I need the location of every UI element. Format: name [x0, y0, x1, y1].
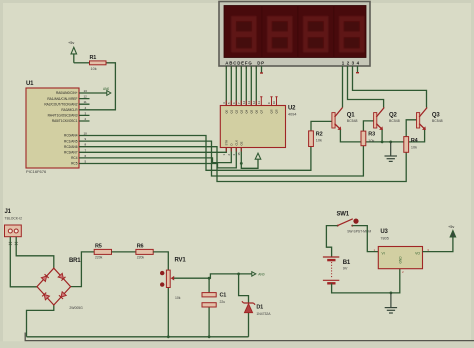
svg-text:BC548: BC548 [347, 119, 358, 123]
wire RC0 to R2 bottom [90, 136, 311, 171]
svg-text:220k: 220k [95, 256, 103, 260]
svg-text:RA5/T1CKI/OSC1: RA5/T1CKI/OSC1 [52, 119, 78, 123]
U2 top pin stubs red tips [226, 97, 277, 106]
svg-text:Q3: Q3 [432, 113, 440, 119]
svg-text:B1: B1 [343, 260, 351, 266]
svg-text:RC4: RC4 [71, 156, 78, 160]
svg-text:Q4: Q4 [244, 109, 248, 113]
svg-text:Q5: Q5 [249, 109, 253, 113]
wire R5 to R6 [112, 251, 136, 253]
U2 top pin numbers [222, 100, 276, 104]
terminal AN0 bottom [252, 272, 265, 277]
display digit 4 [339, 16, 364, 52]
svg-text:VO: VO [415, 252, 420, 256]
svg-text:4094: 4094 [288, 113, 296, 117]
svg-text:D1: D1 [256, 305, 263, 311]
svg-text:11: 11 [257, 101, 261, 104]
wire display pin1 to Q1 collector [342, 66, 344, 108]
svg-text:10k: 10k [411, 145, 417, 149]
svg-text:AN0: AN0 [258, 273, 264, 277]
svg-text:QS: QS [275, 109, 279, 113]
wire segment F display to U2 Q5 [250, 66, 252, 106]
svg-text:QS: QS [270, 109, 274, 113]
svg-text:10k: 10k [91, 67, 97, 71]
diode bottom-left [42, 293, 49, 300]
svg-text:RC3/AN7: RC3/AN7 [64, 151, 78, 155]
svg-text:Q7: Q7 [259, 109, 263, 113]
wire bridge bottom to ground rail [27, 305, 54, 337]
svg-text:10k: 10k [368, 139, 374, 143]
U2 bottom pin numbers [222, 152, 241, 156]
svg-text:OE: OE [239, 141, 243, 145]
diode top-right [58, 273, 65, 280]
svg-text:D: D [229, 143, 233, 145]
svg-text:10: 10 [84, 132, 88, 136]
U2 bottom pin names STR D CLK OE [224, 140, 243, 146]
svg-text:J1: J1 [5, 209, 12, 215]
svg-text:11: 11 [84, 100, 87, 104]
wire R6 to RV1 top [153, 252, 168, 270]
power +5v top left [68, 41, 77, 63]
svg-text:22u: 22u [220, 300, 226, 304]
display pin4 stub [357, 66, 359, 73]
svg-text:AN0: AN0 [103, 87, 109, 91]
svg-text:13: 13 [247, 100, 251, 104]
junction C1 top [208, 277, 211, 280]
junction U2 OE [240, 162, 243, 165]
svg-text:Q2: Q2 [389, 113, 397, 119]
svg-text:U3: U3 [380, 229, 388, 235]
wire RV1 bottom to rail [167, 288, 169, 337]
wire C1 top [208, 278, 210, 292]
svg-text:GND: GND [398, 256, 402, 264]
wire +5v to R1 [74, 62, 90, 64]
wire U2 OE to power terminal [241, 148, 258, 169]
svg-text:RC2/AN6: RC2/AN6 [64, 145, 78, 149]
svg-text:14: 14 [242, 100, 246, 104]
battery B1 [323, 257, 351, 283]
display pin red tips [226, 66, 357, 69]
svg-text:RA4/T1G/OSC2/AN3: RA4/T1G/OSC2/AN3 [48, 114, 78, 118]
wire D1 bottom to rail [248, 313, 250, 337]
svg-text:Q0: Q0 [224, 109, 228, 113]
svg-text:+5v: +5v [68, 41, 74, 45]
capacitor C1 [202, 293, 226, 308]
wire U3 VO to +5v [423, 238, 453, 252]
svg-text:13: 13 [84, 89, 88, 93]
wire RC2 to R4 bottom [90, 147, 407, 182]
svg-text:R3: R3 [368, 132, 375, 138]
svg-text:2W005G: 2W005G [69, 306, 83, 310]
wire R1 to MCLR pin RA3 [90, 63, 116, 110]
svg-text:R1: R1 [90, 55, 97, 61]
connector J1 [5, 209, 23, 237]
power terminal +5v near U2 [255, 153, 261, 159]
wire U3 GND pin down [391, 269, 400, 293]
U1 pin stubs RA0-RA5 [79, 93, 90, 121]
resistor R3 [361, 131, 375, 146]
transistor Q3 [417, 108, 443, 131]
U2 output pin names Q0-Q7 QS QS [224, 109, 278, 113]
display digit separators [261, 6, 334, 58]
wire SW1 left to battery [326, 226, 337, 257]
svg-text:RV1: RV1 [175, 258, 187, 264]
svg-text:U2: U2 [288, 106, 296, 112]
wire Q2 emitter drop [381, 130, 383, 142]
resistor R2 [309, 131, 323, 147]
svg-text:R4: R4 [411, 138, 419, 144]
wire bridge right to R5 [71, 252, 95, 287]
wire battery bottom to ground node [332, 283, 391, 293]
wire segment A display to U2 Q0 [225, 66, 227, 106]
svg-text:12: 12 [252, 100, 256, 104]
svg-text:VI: VI [382, 252, 385, 256]
svg-text:12: 12 [84, 95, 88, 99]
regulator U3 7805 [374, 229, 430, 274]
wire segment G display to U2 Q6 [255, 66, 257, 106]
svg-text:RA3/MCLR: RA3/MCLR [61, 108, 78, 112]
svg-text:BC548: BC548 [389, 119, 400, 123]
svg-text:Q6: Q6 [254, 109, 258, 113]
junction ground tap [389, 141, 392, 144]
svg-text:RA2/COUT/T0CKI/AN2: RA2/COUT/T0CKI/AN2 [44, 102, 77, 106]
svg-text:RA0/AN0/CIN+: RA0/AN0/CIN+ [56, 91, 78, 95]
J1 pin x-marks [9, 242, 18, 245]
wire RV1 wiper to AN0 [174, 274, 252, 278]
junction RV1 rail [167, 335, 170, 338]
wire display pin3 to Q3 collector [353, 66, 427, 108]
wire RC5 to U2 CLK [90, 148, 237, 168]
wire R2 base link [311, 121, 332, 130]
svg-text:15: 15 [237, 152, 241, 156]
svg-text:R5: R5 [95, 244, 102, 250]
wire R3 base link [363, 121, 373, 131]
wire SW1 right to U3 VI [352, 226, 378, 252]
wire D1 top link [239, 274, 249, 303]
resistor R5 [94, 244, 111, 260]
svg-text:R2: R2 [316, 131, 323, 137]
svg-text:RC5: RC5 [71, 162, 78, 166]
svg-text:Q1: Q1 [229, 109, 233, 113]
svg-text:1N4732A: 1N4732A [256, 312, 271, 316]
transistor Q1 [332, 108, 358, 131]
wire R4 base link [406, 120, 416, 137]
emitter rail wire [340, 130, 424, 142]
svg-text:ABCDEFG: ABCDEFG [225, 61, 252, 66]
bottom ground rail [27, 336, 249, 338]
svg-text:BR1: BR1 [69, 258, 81, 264]
switch SW1 [337, 212, 372, 234]
display digit 1 [231, 16, 256, 52]
bridge rectifier BR1 [37, 258, 83, 310]
power +5v right [448, 225, 456, 237]
transistor Q2 [374, 108, 400, 131]
svg-text:BC548: BC548 [432, 119, 443, 123]
svg-text:10k: 10k [316, 139, 322, 143]
U1 pin names [44, 91, 78, 166]
svg-text:10: 10 [272, 100, 276, 104]
svg-text:DP: DP [257, 61, 265, 66]
svg-text:Q3: Q3 [239, 109, 243, 113]
diode top-left [41, 274, 48, 281]
svg-text:+5v: +5v [448, 225, 454, 229]
svg-text:R6: R6 [137, 244, 144, 250]
sheet border corner [25, 333, 474, 341]
7-segment display DS1 body [219, 2, 370, 67]
svg-text:CLK: CLK [234, 140, 238, 146]
U2 bottom pin stubs [226, 148, 241, 152]
svg-text:1234: 1234 [342, 61, 362, 66]
svg-text:RC0/AN4: RC0/AN4 [64, 134, 78, 138]
wire segment C display to U2 Q2 [235, 66, 237, 106]
wire J1 right to bridge top corner [16, 237, 54, 269]
svg-text:PIC16F676: PIC16F676 [26, 169, 47, 174]
U1 pin numbers [84, 89, 88, 164]
wire J1 left to bridge left corner [10, 237, 37, 287]
svg-text:SW1: SW1 [337, 212, 350, 218]
junction D1 top [237, 273, 240, 276]
svg-text:7805: 7805 [380, 236, 388, 240]
ground right [385, 293, 397, 313]
resistor R4 [404, 137, 419, 153]
svg-text:220k: 220k [137, 256, 145, 260]
svg-text:C1: C1 [220, 293, 227, 299]
resistor R1 [90, 55, 107, 71]
U1 PIC16F676 [26, 81, 79, 174]
wire C1 bottom to rail [208, 307, 210, 337]
svg-text:10k: 10k [175, 296, 181, 300]
resistor R6 [136, 244, 153, 260]
junction Q2 emitter [381, 141, 384, 144]
svg-text:RA1/AN1/CIN-/VREF: RA1/AN1/CIN-/VREF [47, 97, 77, 101]
display DP stub [261, 66, 263, 73]
wire segment B display to U2 Q1 [230, 66, 232, 106]
svg-text:RC1/AN5: RC1/AN5 [64, 139, 78, 143]
display digit 3 [303, 16, 328, 52]
wire RC3 to U2 STR [90, 148, 227, 153]
junction ground node [390, 292, 393, 295]
wire segment E display to U2 Q4 [245, 66, 247, 106]
zener diode D1 [242, 301, 271, 316]
potentiometer RV1 [160, 258, 186, 301]
terminal AN0 at RA0 [90, 87, 111, 95]
svg-text:Q2: Q2 [234, 109, 238, 113]
svg-text:Q1: Q1 [347, 113, 355, 119]
U2 4094 shift register [220, 106, 285, 148]
junction C1 rail [208, 335, 211, 338]
svg-text:9V: 9V [343, 267, 348, 271]
wire RC4 to U2 D [90, 148, 232, 163]
diode bottom-right [59, 292, 66, 299]
svg-text:STR: STR [224, 140, 228, 146]
display digit 2 [267, 16, 292, 52]
svg-text:U1: U1 [26, 81, 34, 87]
U1 pin stubs RC0-RC5 [79, 136, 90, 164]
ground mid [385, 142, 398, 162]
wire display pin2 to Q2 collector [348, 66, 384, 108]
svg-text:TBLOCK-I2: TBLOCK-I2 [5, 217, 23, 221]
wire segment D display to U2 Q3 [240, 66, 242, 106]
wire RC1 to R3 bottom [90, 141, 364, 176]
